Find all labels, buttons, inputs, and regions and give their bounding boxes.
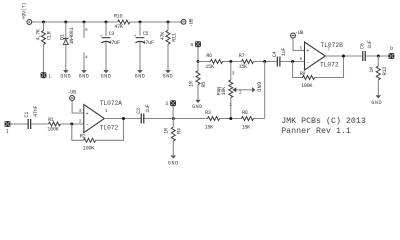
svg-text:+9V(T): +9V(T): [21, 3, 27, 20]
svg-text:R10: R10: [114, 14, 123, 20]
ground under R11: [163, 70, 174, 79]
svg-text:-UB: -UB: [295, 30, 304, 36]
node junction top rail x140: [139, 21, 142, 24]
svg-text:3: 3: [232, 71, 235, 77]
resistor R6 15K: [205, 53, 222, 70]
svg-text:R8: R8: [242, 110, 248, 116]
resistor R10 47K: [114, 14, 130, 30]
ground under R5: [192, 100, 203, 110]
svg-text:TL072: TL072: [100, 125, 119, 132]
svg-text:JMK PCBs (C) 2013: JMK PCBs (C) 2013: [281, 116, 366, 126]
terminal +9V(T): [21, 3, 31, 25]
wire U1B output rail: [325, 55, 389, 57]
svg-text:1: 1: [229, 102, 232, 108]
capacitor C3 47uF: [100, 22, 120, 70]
svg-text:1uF: 1uF: [281, 48, 287, 57]
svg-text:C5: C5: [143, 31, 149, 37]
svg-text:1uF: 1uF: [367, 40, 373, 49]
svg-text:+: +: [86, 111, 89, 117]
svg-text:L: L: [48, 73, 51, 79]
svg-text:Panner Rev 1.1: Panner Rev 1.1: [281, 127, 351, 136]
svg-text:GND: GND: [60, 74, 71, 80]
svg-text:-UB: -UB: [188, 19, 194, 28]
svg-text:R12: R12: [382, 67, 388, 76]
ground under C5: [135, 70, 146, 79]
wire pin 4 stub V-: [84, 53, 88, 71]
node junction output x123.5: [122, 117, 125, 120]
svg-text:TL072: TL072: [320, 61, 339, 68]
svg-text:4: 4: [85, 54, 88, 60]
svg-text:+: +: [306, 49, 309, 55]
node junction x173.3: [172, 117, 175, 120]
capacitor C1 47nF: [24, 106, 39, 129]
svg-text:100K: 100K: [83, 146, 95, 152]
svg-text:R1: R1: [48, 117, 54, 123]
wire pin 8 stub V+: [84, 22, 88, 38]
svg-text:47K: 47K: [114, 24, 124, 30]
title text JMK PCBs: [281, 116, 366, 136]
svg-text:47uF: 47uF: [143, 40, 154, 46]
svg-text:R9: R9: [300, 71, 306, 77]
svg-text:8: 8: [85, 27, 88, 33]
svg-text:6: 6: [300, 56, 303, 62]
svg-text:15K: 15K: [242, 124, 252, 130]
svg-text:O: O: [390, 46, 393, 52]
svg-text:R6: R6: [206, 53, 212, 59]
svg-text:GND: GND: [168, 160, 179, 166]
svg-text:C2: C2: [136, 108, 142, 114]
op-amp U1A TL072A: [79, 100, 122, 132]
resistor R2 100K feedback: [72, 119, 124, 152]
resistor CLR 4.7K: [36, 22, 53, 73]
terminal a: [190, 41, 201, 61]
node junction mid rail x198: [197, 60, 200, 63]
ground under R12: [371, 96, 382, 106]
svg-text:-: -: [307, 59, 310, 65]
svg-text:GND: GND: [163, 74, 174, 80]
terminal -UB for U1A: [68, 89, 84, 113]
ground under D1: [60, 70, 71, 79]
svg-text:100K: 100K: [301, 83, 313, 89]
svg-text:GND: GND: [101, 74, 112, 80]
wire U1A output rail: [104, 118, 264, 120]
svg-text:-: -: [86, 122, 89, 128]
capacitor C2 1uF: [136, 104, 151, 123]
svg-text:47nF: 47nF: [33, 106, 39, 117]
svg-text:1N4001: 1N4001: [69, 28, 75, 45]
svg-text:R3: R3: [205, 110, 211, 116]
svg-text:1M: 1M: [189, 81, 195, 87]
svg-text:1uF: 1uF: [145, 104, 151, 113]
svg-text:-UB: -UB: [68, 89, 77, 95]
wire top rail: [32, 21, 181, 23]
ground under R4: [168, 156, 179, 167]
svg-text:1: 1: [105, 108, 108, 114]
svg-text:TL072B: TL072B: [321, 42, 344, 49]
node junction pot bottom x230.8: [229, 117, 232, 120]
ground at pot wiper sideways: [252, 82, 261, 93]
svg-text:5: 5: [300, 45, 303, 51]
svg-text:3: 3: [79, 108, 82, 114]
terminal S: [165, 100, 176, 118]
node junction top rail x84: [83, 21, 86, 24]
svg-text:R2: R2: [80, 134, 86, 140]
resistor R11 47K: [160, 22, 178, 70]
svg-text:GND: GND: [255, 82, 261, 93]
svg-text:R5: R5: [201, 82, 207, 88]
svg-text:R11: R11: [172, 33, 178, 42]
svg-text:15K: 15K: [205, 64, 215, 70]
node junction mid rail x264.7: [263, 60, 266, 63]
svg-text:GND: GND: [135, 74, 146, 80]
terminal I: [5, 121, 28, 135]
resistor R4 1M: [163, 119, 182, 156]
capacitor C6 1uF: [359, 40, 373, 61]
svg-text:CLR: CLR: [46, 31, 52, 40]
svg-text:D1: D1: [59, 34, 65, 40]
terminal O: [389, 46, 395, 59]
svg-text:R4: R4: [177, 128, 183, 134]
terminal -UB top right: [181, 19, 194, 28]
op-amp U1B TL072B: [300, 42, 344, 70]
node junction top rail x106: [105, 21, 108, 24]
node junction mid rail x292.6: [291, 60, 294, 63]
potentiometer PAN 10K: [217, 62, 242, 119]
resistor R3 15K: [205, 110, 220, 130]
resistor R12 1M: [369, 56, 388, 95]
svg-text:C4: C4: [272, 51, 278, 57]
terminal -UB for U1B: [291, 30, 305, 51]
svg-text:100K: 100K: [47, 127, 59, 133]
svg-text:15K: 15K: [239, 64, 249, 70]
node junction input x71.8: [70, 123, 73, 126]
wire vertical from bottom rail to mid rail: [264, 62, 266, 119]
svg-text:47K: 47K: [160, 31, 166, 41]
resistor R5 1M: [189, 62, 207, 100]
wire C1 to R1: [31, 123, 83, 125]
svg-text:2: 2: [79, 119, 82, 125]
node junction output x343.5: [342, 55, 345, 58]
svg-text:TL072A: TL072A: [100, 100, 123, 107]
svg-text:15K: 15K: [205, 124, 215, 130]
diode D1 1N4001: [59, 22, 75, 70]
svg-text:+: +: [134, 34, 137, 39]
svg-text:a: a: [190, 42, 193, 48]
svg-text:C6: C6: [359, 43, 365, 49]
node junction top rail x168: [167, 21, 170, 24]
svg-text:+: +: [100, 34, 103, 39]
svg-text:R7: R7: [239, 53, 245, 59]
capacitor C5 47uF: [134, 22, 154, 70]
wire mid rail: [198, 61, 305, 63]
svg-text:GND: GND: [192, 104, 203, 110]
svg-text:GND: GND: [79, 74, 90, 80]
ground under pin4 stub: [79, 70, 90, 79]
node junction pot top x230.8: [229, 60, 232, 63]
ground under C3: [101, 70, 112, 79]
resistor R8 15K: [242, 110, 254, 130]
node junction output x378.3: [377, 55, 380, 58]
svg-text:1M: 1M: [163, 128, 169, 134]
terminal L: [41, 72, 52, 79]
resistor R7 15K: [239, 53, 254, 70]
wire pot wiper to ground: [237, 89, 252, 91]
svg-text:C3: C3: [109, 31, 115, 37]
svg-text:2: 2: [239, 90, 242, 96]
resistor R1 100K: [47, 117, 60, 133]
node junction top rail x65.8: [64, 21, 67, 24]
svg-text:10K: 10K: [221, 86, 227, 96]
svg-text:GND: GND: [371, 100, 382, 106]
svg-text:1M: 1M: [369, 67, 375, 73]
svg-text:4,7K: 4,7K: [36, 28, 42, 40]
svg-text:I: I: [6, 129, 9, 135]
capacitor C4 1uF: [272, 48, 287, 67]
svg-text:47uF: 47uF: [109, 40, 120, 46]
svg-text:C1: C1: [24, 112, 30, 118]
resistor R9 100K feedback: [293, 56, 344, 89]
node junction top rail x43.5: [42, 21, 45, 24]
svg-text:S: S: [165, 101, 168, 107]
